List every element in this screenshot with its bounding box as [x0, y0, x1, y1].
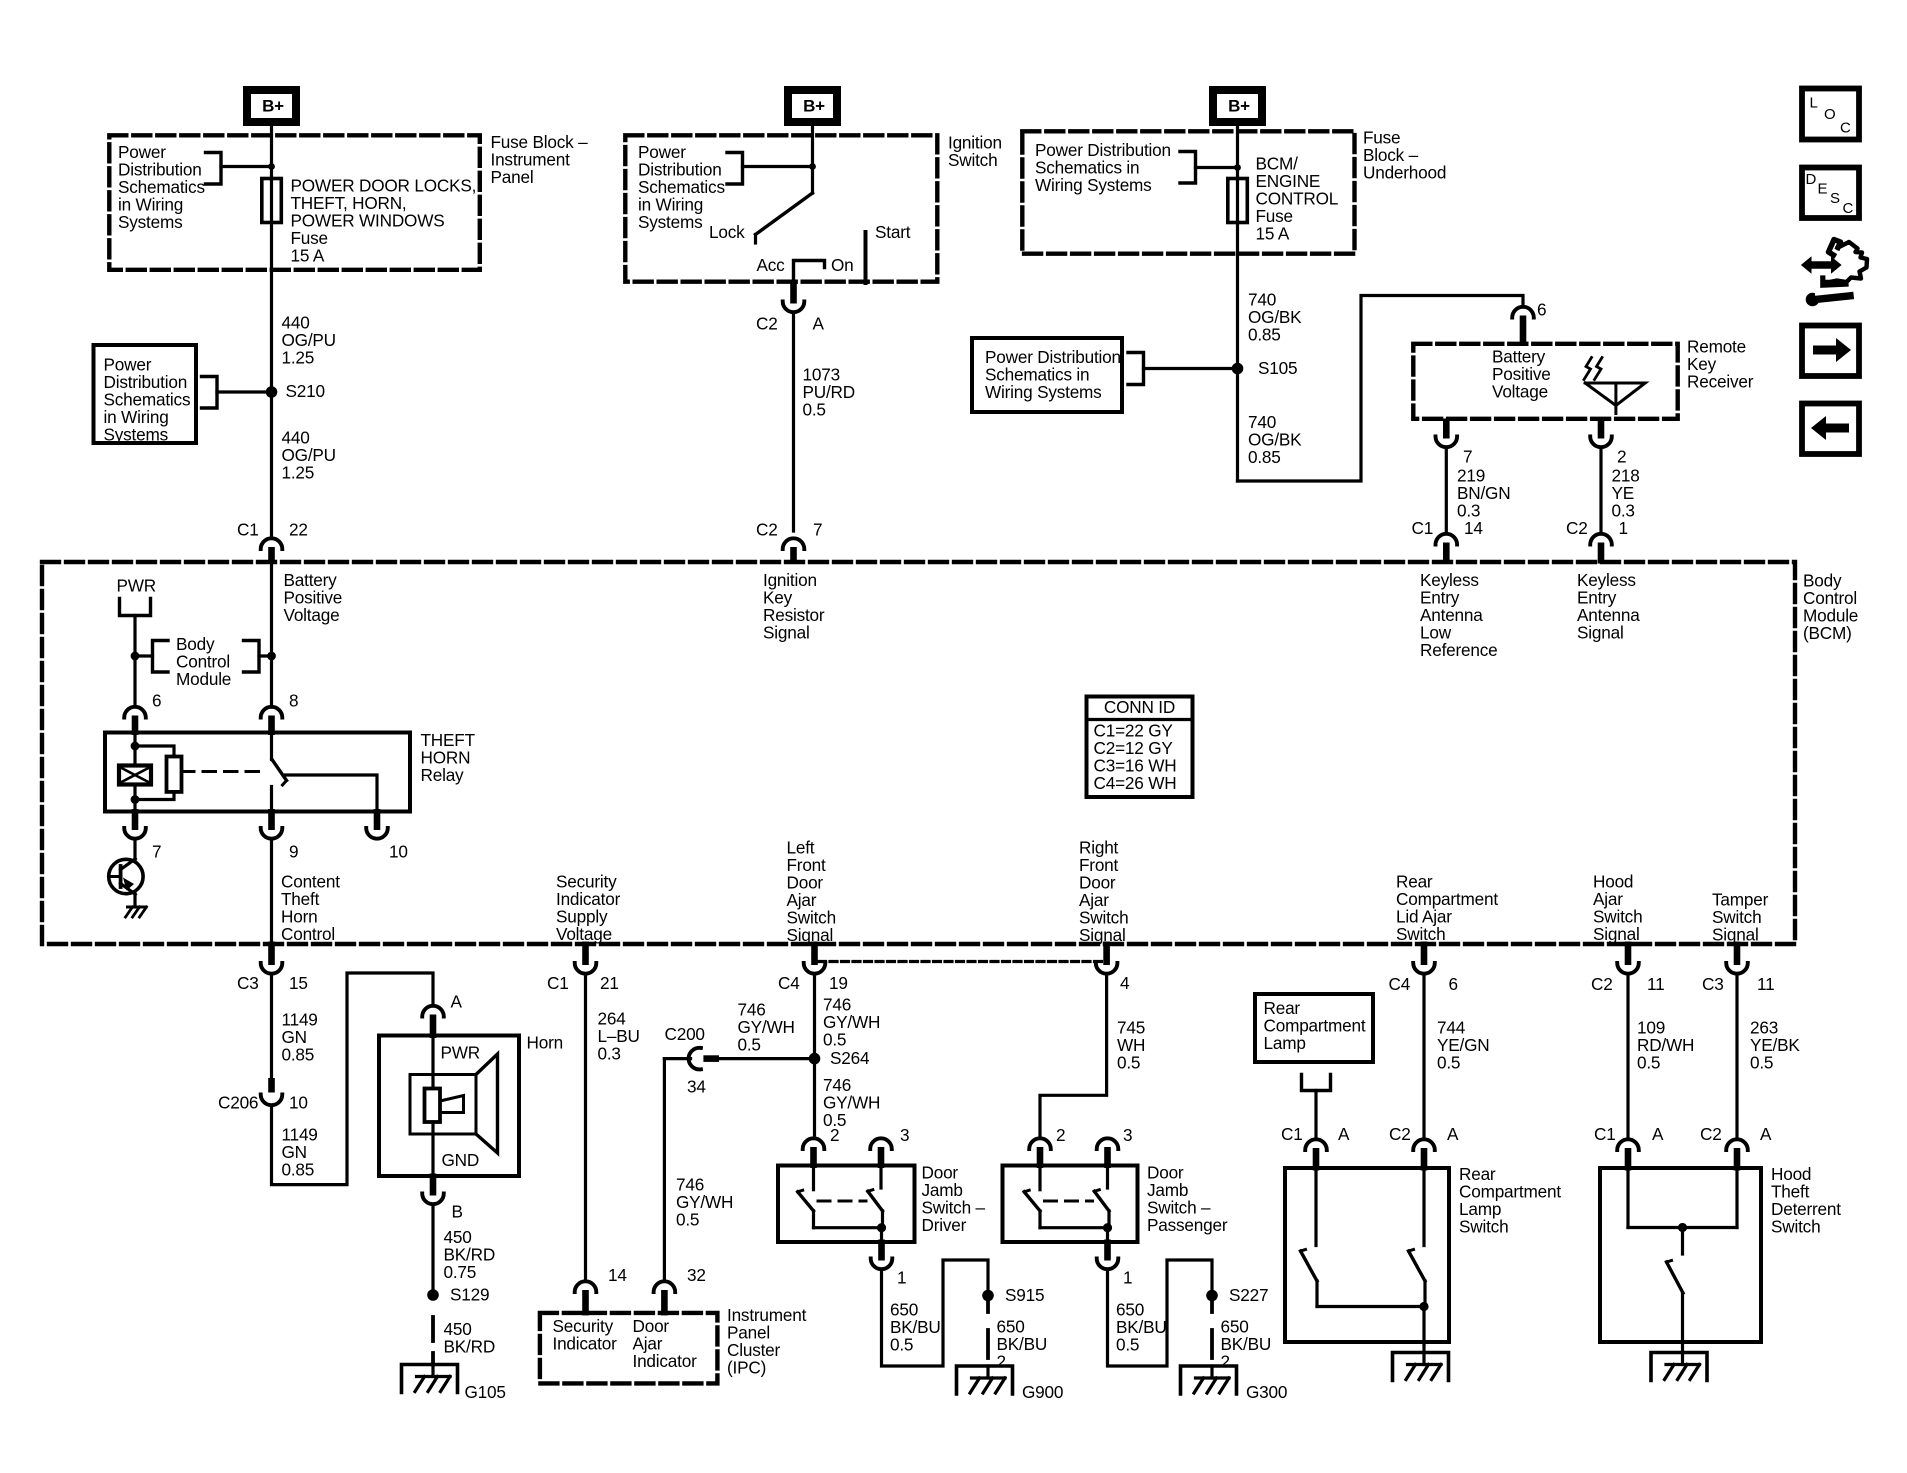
- driver transistor Q1: [133, 842, 136, 860]
- svg-text:Wiring Systems: Wiring Systems: [1035, 175, 1152, 195]
- splice S264: [809, 1053, 821, 1065]
- relay actuator dashed link: [182, 770, 265, 773]
- relay switch contact from pin 8: [270, 734, 273, 760]
- note: Body Control Module bracket: [135, 654, 153, 657]
- svg-text:S915: S915: [1005, 1285, 1044, 1305]
- svg-text:S: S: [1830, 190, 1840, 207]
- svg-text:0.85: 0.85: [1248, 325, 1281, 345]
- svg-text:4: 4: [1120, 973, 1130, 993]
- hood theft deterrent switch box: [1600, 1168, 1761, 1342]
- relay switch blade: [272, 760, 287, 781]
- svg-text:0.5: 0.5: [803, 400, 826, 420]
- svg-text:G900: G900: [1022, 1382, 1063, 1402]
- svg-text:15: 15: [289, 973, 308, 993]
- svg-text:C: C: [1840, 120, 1851, 137]
- wire 264 L-BU: [584, 977, 587, 1278]
- power terminal B+ (right): [1213, 90, 1262, 122]
- wire 746 GY/WH from C4-19: [813, 977, 816, 1135]
- horn assembly box: [379, 1036, 519, 1177]
- svg-text:C200: C200: [665, 1024, 705, 1044]
- svg-text:C3: C3: [1702, 974, 1724, 994]
- svg-text:Module: Module: [176, 669, 231, 689]
- door jamb switch - driver box: [778, 1166, 915, 1243]
- svg-text:C1: C1: [237, 520, 259, 540]
- svg-text:Switch: Switch: [1396, 924, 1445, 944]
- svg-text:0.5: 0.5: [890, 1335, 913, 1355]
- wire C206 to horn pin A: [272, 973, 434, 1185]
- svg-text:0.75: 0.75: [444, 1262, 477, 1282]
- passenger jamb switch dashed link: [1045, 1200, 1093, 1203]
- driver jamb switch poles: [812, 1167, 815, 1190]
- wire 450 BK/RD 0.75: [431, 1208, 434, 1296]
- svg-text:C1: C1: [1412, 518, 1434, 538]
- svg-text:Horn: Horn: [527, 1033, 563, 1053]
- svg-text:G105: G105: [465, 1382, 506, 1402]
- driver jamb switch dashed link: [818, 1200, 866, 1203]
- svg-text:7: 7: [813, 520, 822, 540]
- svg-text:0.5: 0.5: [676, 1210, 699, 1230]
- fuse block - underhood (dashed box): [1022, 131, 1354, 253]
- svg-text:A: A: [1338, 1124, 1350, 1144]
- svg-text:1: 1: [1123, 1268, 1132, 1288]
- svg-text:(IPC): (IPC): [727, 1358, 766, 1378]
- svg-text:Lamp: Lamp: [1264, 1033, 1306, 1053]
- wire note bracket to B+ feed: [221, 165, 272, 168]
- svg-text:Signal: Signal: [787, 925, 834, 945]
- relay wire to pin 10: [286, 775, 378, 811]
- svg-text:Acc: Acc: [757, 255, 786, 275]
- svg-text:Reference: Reference: [1420, 640, 1498, 660]
- wire 746 GY/WH to pin 32: [663, 1059, 666, 1278]
- svg-text:Indicator: Indicator: [633, 1351, 698, 1371]
- svg-text:Systems: Systems: [638, 212, 703, 232]
- svg-text:Signal: Signal: [1577, 623, 1624, 643]
- svg-text:0.5: 0.5: [823, 1030, 846, 1050]
- ground G105: [402, 1365, 458, 1393]
- svg-text:1: 1: [897, 1268, 906, 1288]
- svg-text:CONN ID: CONN ID: [1104, 697, 1175, 717]
- relay coil: [133, 734, 136, 766]
- power terminal B+ (left): [247, 90, 296, 122]
- splice S129: [427, 1289, 439, 1301]
- svg-text:0.5: 0.5: [1437, 1053, 1460, 1073]
- connector pin 7 (receiver): [1443, 419, 1450, 439]
- chassis ground (transistor): [128, 906, 147, 909]
- ground G300: [1181, 1366, 1237, 1394]
- wire 263 YE/BK: [1735, 977, 1738, 1136]
- svg-text:On: On: [831, 255, 854, 275]
- wire 650 BK/BU to S227: [1108, 1260, 1213, 1366]
- svg-text:11: 11: [1647, 974, 1664, 994]
- connector pin 2 (receiver): [1598, 419, 1605, 439]
- door jamb switch - passenger box: [1003, 1166, 1138, 1243]
- svg-text:A: A: [1652, 1124, 1664, 1144]
- svg-text:7: 7: [1463, 447, 1472, 467]
- rear lamp switch rail: [1317, 1305, 1424, 1308]
- relay suppression resistor: [135, 746, 174, 757]
- svg-text:C4: C4: [778, 973, 800, 993]
- svg-text:0.3: 0.3: [598, 1044, 621, 1064]
- wire hood switch to ground: [1681, 1293, 1684, 1353]
- svg-text:GND: GND: [442, 1150, 480, 1170]
- svg-text:PWR: PWR: [441, 1043, 481, 1063]
- rear compartment lamp switch box: [1285, 1168, 1449, 1342]
- fuse block - instrument panel (dashed box): [109, 135, 480, 269]
- icon: next arrow button: [1802, 326, 1859, 377]
- rear compartment lamp continuation bracket: [1302, 1075, 1331, 1091]
- note box: Power Distribution Schematics (solid, right): [972, 338, 1122, 412]
- svg-text:A: A: [1760, 1124, 1772, 1144]
- svg-text:C4=26 WH: C4=26 WH: [1094, 773, 1177, 793]
- ground (hood theft deterrent switch): [1651, 1353, 1707, 1381]
- svg-text:A: A: [813, 314, 825, 334]
- svg-text:C2: C2: [1591, 974, 1613, 994]
- splice S915: [982, 1290, 994, 1302]
- svg-text:C4: C4: [1389, 974, 1411, 994]
- svg-text:Passenger: Passenger: [1147, 1215, 1228, 1235]
- svg-text:11: 11: [1757, 974, 1774, 994]
- svg-text:34: 34: [687, 1077, 706, 1097]
- svg-text:PWR: PWR: [117, 576, 157, 596]
- svg-text:C2: C2: [1389, 1124, 1411, 1144]
- svg-text:Switch: Switch: [948, 150, 997, 170]
- svg-text:Voltage: Voltage: [1492, 382, 1548, 402]
- wire battery positive inside BCM: [270, 562, 273, 704]
- antenna symbol: [1585, 383, 1645, 406]
- svg-text:Lock: Lock: [709, 222, 745, 242]
- svg-text:0.85: 0.85: [1248, 447, 1281, 467]
- svg-text:B+: B+: [262, 97, 284, 116]
- svg-text:2: 2: [997, 1352, 1006, 1372]
- svg-text:0.5: 0.5: [738, 1035, 761, 1055]
- wire 744 YE/GN: [1422, 977, 1425, 1136]
- fuse F2: BCM/ENGINE CONTROL 15A: [1228, 179, 1248, 223]
- svg-text:D: D: [1806, 171, 1817, 188]
- svg-text:Start: Start: [875, 222, 911, 242]
- svg-text:Indicator: Indicator: [553, 1334, 618, 1354]
- broken wire 450 BK/RD to G105: [431, 1317, 435, 1341]
- icon: vehicle outline with double arrow and wrench: [1801, 256, 1842, 273]
- svg-text:C1: C1: [1594, 1124, 1616, 1144]
- broken wire 650 BK/BU 2 to G300: [1210, 1301, 1214, 1312]
- wire rear lamp switch to ground: [1422, 1307, 1425, 1353]
- svg-text:Signal: Signal: [1593, 924, 1640, 944]
- wire PWR to relay pin 6: [133, 616, 136, 705]
- icon: back arrow button: [1802, 404, 1859, 455]
- wire S105 to remote key receiver pin 6: [1238, 296, 1524, 482]
- svg-text:10: 10: [289, 1093, 308, 1113]
- passenger jamb rail to pin 1: [1040, 1226, 1108, 1229]
- svg-text:14: 14: [1464, 518, 1483, 538]
- svg-text:Systems: Systems: [118, 212, 183, 232]
- svg-text:Underhood: Underhood: [1363, 163, 1446, 183]
- svg-text:A: A: [1447, 1124, 1459, 1144]
- ground G900: [957, 1366, 1013, 1394]
- svg-text:C1: C1: [547, 973, 569, 993]
- rear lamp switch poles: [1314, 1170, 1317, 1246]
- relay K1: THEFT HORN Relay box: [105, 733, 410, 812]
- svg-text:0.85: 0.85: [282, 1160, 315, 1180]
- svg-text:L: L: [1810, 95, 1818, 112]
- svg-text:19: 19: [829, 973, 848, 993]
- broken wire 650 BK/BU 2 to G900: [986, 1301, 990, 1312]
- wire note bracket to underhood feed: [1196, 166, 1238, 169]
- relay pin 9 stub: [270, 787, 273, 812]
- wire 745 WH from pin 4: [1040, 977, 1107, 1135]
- svg-text:C2: C2: [756, 314, 778, 334]
- svg-text:Control: Control: [281, 924, 335, 944]
- svg-text:3: 3: [1123, 1125, 1132, 1145]
- wire 109 RD/WH: [1626, 977, 1629, 1136]
- svg-text:6: 6: [1449, 974, 1458, 994]
- ignition switch (dashed box): [625, 135, 937, 281]
- icon: DESC button: [1802, 168, 1859, 219]
- body control module BCM (dashed box): [42, 562, 1795, 944]
- wire note to splice S210: [217, 390, 272, 393]
- svg-text:Voltage: Voltage: [284, 605, 340, 625]
- wire relay pin 9 to C3-15: [270, 842, 273, 944]
- svg-text:C2: C2: [756, 520, 778, 540]
- svg-text:S210: S210: [286, 381, 325, 401]
- svg-text:22: 22: [289, 520, 308, 540]
- svg-text:32: 32: [687, 1265, 706, 1285]
- dashed wire C4-19 to right front pin 4: [819, 960, 1103, 963]
- hood switch wiring: [1626, 1170, 1629, 1228]
- svg-text:Switch: Switch: [1459, 1217, 1508, 1237]
- svg-text:0.5: 0.5: [1116, 1335, 1139, 1355]
- wire 650 BK/BU to S915: [882, 1260, 989, 1366]
- ignition Acc-On contact wire: [794, 261, 825, 285]
- wire bracket to battery feed: [259, 654, 272, 657]
- svg-text:1.25: 1.25: [282, 463, 315, 483]
- wire B+ through underhood fuse: [1236, 125, 1239, 481]
- svg-text:Signal: Signal: [763, 623, 810, 643]
- svg-text:Systems: Systems: [104, 425, 169, 445]
- wire lamp to switch C1-A: [1314, 1091, 1317, 1137]
- rear compartment lamp box: [1255, 994, 1373, 1062]
- CONN ID table: [1087, 697, 1193, 798]
- svg-text:15 A: 15 A: [1256, 224, 1290, 244]
- ground (rear compartment lamp switch): [1393, 1353, 1449, 1381]
- wire note bracket to ignition feed: [743, 165, 813, 168]
- svg-text:2: 2: [1056, 1125, 1065, 1145]
- svg-text:Switch: Switch: [1771, 1217, 1820, 1237]
- svg-text:0.85: 0.85: [282, 1045, 315, 1065]
- svg-text:B+: B+: [803, 97, 825, 116]
- svg-text:O: O: [1824, 106, 1835, 123]
- wire 1073 PU/RD: [792, 316, 795, 532]
- splice S227: [1206, 1290, 1218, 1302]
- icon: LOC button: [1802, 89, 1859, 140]
- svg-text:6: 6: [1537, 300, 1546, 320]
- svg-text:G300: G300: [1246, 1382, 1287, 1402]
- splice S210: [266, 386, 278, 398]
- svg-text:10: 10: [389, 842, 408, 862]
- hood switch blade: [1667, 1262, 1684, 1293]
- splice S105: [1232, 363, 1244, 375]
- wire 1149 GN segment 1: [270, 977, 273, 1078]
- svg-text:S227: S227: [1229, 1285, 1268, 1305]
- svg-text:C3: C3: [237, 973, 259, 993]
- svg-text:Wiring Systems: Wiring Systems: [985, 382, 1102, 402]
- ignition switch blade toward Lock: [756, 193, 813, 235]
- svg-text:21: 21: [600, 973, 619, 993]
- svg-text:14: 14: [608, 1265, 627, 1285]
- wire 218 YE: [1599, 451, 1602, 531]
- svg-text:C: C: [1843, 200, 1854, 217]
- svg-text:Relay: Relay: [421, 765, 465, 785]
- svg-text:8: 8: [289, 691, 298, 711]
- passenger jamb switch poles: [1038, 1167, 1041, 1190]
- svg-text:A: A: [451, 992, 463, 1012]
- svg-text:B: B: [452, 1202, 463, 1222]
- svg-text:(BCM): (BCM): [1803, 623, 1852, 643]
- svg-text:1.25: 1.25: [282, 348, 315, 368]
- driver jamb rail to pin 1: [814, 1226, 882, 1229]
- remote key receiver (dashed box): [1413, 344, 1677, 419]
- fuse F1: POWER DOOR LOCKS THEFT HORN POWER WINDOWS 15A: [262, 179, 282, 223]
- svg-text:Receiver: Receiver: [1687, 372, 1754, 392]
- wire C200 to S264: [719, 1057, 815, 1060]
- svg-text:C1: C1: [1281, 1124, 1303, 1144]
- svg-text:7: 7: [152, 842, 161, 862]
- svg-text:15 A: 15 A: [291, 246, 325, 266]
- svg-text:0.5: 0.5: [1750, 1053, 1773, 1073]
- note box: Power Distribution Schematics (solid, left): [94, 345, 197, 443]
- power terminal B+ (middle): [788, 90, 837, 122]
- wire transistor emitter to ground: [133, 894, 136, 907]
- svg-text:B+: B+: [1228, 97, 1250, 116]
- svg-text:3: 3: [900, 1125, 909, 1145]
- svg-text:S264: S264: [830, 1048, 870, 1068]
- svg-text:C2: C2: [1566, 518, 1588, 538]
- svg-text:6: 6: [152, 691, 161, 711]
- instrument panel cluster IPC (dashed box): [540, 1313, 718, 1384]
- svg-text:C206: C206: [218, 1093, 258, 1113]
- svg-text:0.5: 0.5: [1117, 1053, 1140, 1073]
- svg-text:S105: S105: [1258, 358, 1297, 378]
- wire note to splice S105: [1144, 367, 1238, 370]
- svg-text:Voltage: Voltage: [556, 924, 612, 944]
- wire B+ through fuse to C1-22: [270, 125, 273, 535]
- svg-text:Panel: Panel: [491, 167, 534, 187]
- svg-text:C2: C2: [1700, 1124, 1722, 1144]
- wire B+ to ignition switch: [811, 125, 814, 193]
- svg-text:E: E: [1818, 181, 1828, 198]
- svg-text:S129: S129: [450, 1285, 489, 1305]
- svg-text:2: 2: [830, 1125, 839, 1145]
- svg-text:9: 9: [289, 842, 298, 862]
- ignition Start contact: [864, 232, 868, 283]
- wire 219 BN/GN: [1445, 451, 1448, 531]
- svg-text:1: 1: [1619, 518, 1628, 538]
- svg-text:BK/RD: BK/RD: [444, 1337, 496, 1357]
- svg-text:0.5: 0.5: [1637, 1053, 1660, 1073]
- svg-text:Driver: Driver: [922, 1215, 967, 1235]
- svg-text:Signal: Signal: [1079, 925, 1126, 945]
- svg-text:2: 2: [1221, 1352, 1230, 1372]
- svg-text:2: 2: [1617, 447, 1626, 467]
- horn symbol: [410, 1075, 476, 1135]
